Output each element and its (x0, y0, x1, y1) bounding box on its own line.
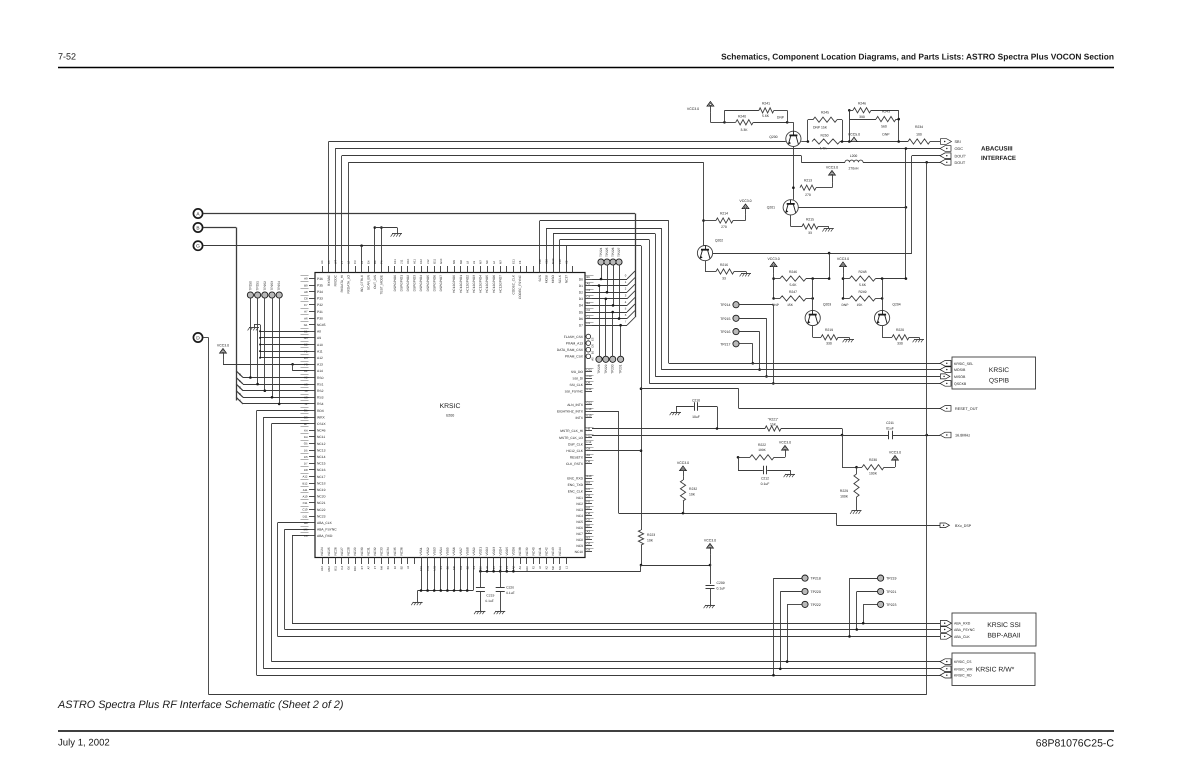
svg-text:QSPIB: QSPIB (989, 378, 1010, 385)
svg-text:B11: B11 (333, 566, 337, 571)
svg-text:DNP 15K: DNP 15K (813, 126, 828, 130)
svg-text:VCC3.0: VCC3.0 (837, 257, 849, 261)
svg-text:RXDDC: RXDDC (333, 274, 337, 286)
svg-text:D5: D5 (591, 344, 595, 348)
svg-text:100K: 100K (840, 495, 849, 499)
svg-text:G4: G4 (587, 447, 591, 451)
svg-text:L10: L10 (558, 259, 562, 264)
svg-text:NC46: NC46 (317, 429, 326, 433)
svg-text:ENC_CLK: ENC_CLK (568, 490, 584, 494)
svg-text:ABA_CLK: ABA_CLK (317, 521, 333, 525)
svg-text:D1: D1 (587, 321, 591, 325)
svg-text:R249: R249 (858, 290, 866, 294)
svg-text:10uF: 10uF (692, 415, 700, 419)
svg-text:5.6K: 5.6K (762, 114, 770, 118)
svg-text:R232: R232 (689, 487, 697, 491)
svg-text:K4: K4 (304, 429, 308, 433)
svg-text:NC6: NC6 (576, 526, 583, 530)
svg-text:M7: M7 (498, 260, 502, 264)
svg-text:R214: R214 (720, 211, 728, 215)
svg-text:VSS2: VSS2 (426, 547, 430, 555)
svg-text:SSI_DI: SSI_DI (573, 376, 584, 380)
svg-text:C3: C3 (587, 288, 591, 292)
svg-text:SSI_DO: SSI_DO (571, 370, 584, 374)
svg-text:100K: 100K (758, 448, 766, 452)
svg-text:B10: B10 (353, 566, 357, 571)
svg-text:TP219: TP219 (886, 577, 896, 581)
svg-text:HC12GPIO4: HC12GPIO4 (479, 275, 483, 293)
svg-text:NC17: NC17 (317, 475, 326, 479)
svg-text:DOUT': DOUT' (955, 154, 967, 158)
svg-text:ENC_TXD: ENC_TXD (568, 483, 584, 487)
svg-text:RS4: RS4 (317, 402, 324, 406)
svg-text:A8: A8 (317, 330, 321, 334)
svg-text:P34: P34 (317, 290, 323, 294)
svg-text:FLASH_CSX: FLASH_CSX (564, 335, 584, 339)
svg-text:A12: A12 (303, 475, 308, 479)
svg-text:J4: J4 (406, 566, 410, 569)
svg-text:H10: H10 (406, 258, 410, 264)
svg-text:OUT_DIS: OUT_DIS (373, 275, 377, 289)
svg-text:BXo_DSP: BXo_DSP (955, 524, 972, 528)
svg-text:E31: E31 (419, 566, 423, 571)
svg-text:P4: P4 (380, 260, 384, 264)
svg-text:3.3K: 3.3K (741, 128, 749, 132)
svg-text:NC4: NC4 (576, 514, 583, 518)
svg-text:TP254: TP254 (277, 281, 281, 291)
svg-text:L2: L2 (347, 260, 351, 264)
svg-text:5.6K: 5.6K (859, 283, 867, 287)
svg-text:B4: B4 (373, 260, 377, 264)
svg-text:July 1, 2002: July 1, 2002 (58, 738, 110, 749)
svg-text:C7: C7 (304, 303, 308, 307)
svg-text:R250: R250 (820, 133, 828, 137)
svg-text:HC12GPIO1: HC12GPIO1 (459, 275, 463, 293)
svg-text:M10: M10 (551, 258, 555, 264)
svg-text:10K: 10K (647, 539, 654, 543)
svg-text:D9: D9 (587, 381, 591, 385)
svg-text:K12: K12 (419, 259, 423, 264)
svg-text:F7: F7 (373, 566, 377, 570)
svg-text:NC41: NC41 (538, 547, 542, 555)
svg-text:A2: A2 (512, 566, 516, 570)
svg-text:NC23: NC23 (317, 514, 326, 518)
svg-text:M4: M4 (380, 566, 384, 570)
svg-text:TP231: TP231 (619, 364, 623, 374)
svg-text:NC27: NC27 (340, 547, 344, 555)
svg-text:7-52: 7-52 (58, 52, 76, 62)
svg-text:NC38: NC38 (518, 547, 522, 555)
svg-text:B10: B10 (587, 474, 592, 478)
svg-text:R222: R222 (758, 443, 766, 447)
svg-text:0.1uF: 0.1uF (506, 591, 514, 595)
svg-text:CLK_RSTX: CLK_RSTX (566, 462, 584, 466)
svg-text:DSPGPIO6: DSPGPIO6 (432, 275, 436, 292)
svg-text:D0: D0 (579, 277, 583, 281)
svg-text:K2: K2 (564, 260, 568, 264)
svg-text:J11: J11 (399, 259, 403, 264)
svg-text:ABA_FSYNC: ABA_FSYNC (317, 528, 337, 532)
svg-text:VSS7: VSS7 (459, 547, 463, 555)
svg-text:C1: C1 (587, 314, 591, 318)
svg-text:330: 330 (826, 342, 832, 346)
svg-text:DNP: DNP (777, 115, 785, 119)
svg-text:L1: L1 (564, 566, 568, 570)
svg-text:NC9: NC9 (576, 544, 583, 548)
svg-text:L11: L11 (432, 566, 436, 571)
svg-text:B7: B7 (492, 566, 496, 570)
svg-text:C211: C211 (886, 421, 894, 425)
svg-text:DSPGPIO1: DSPGPIO1 (399, 275, 403, 292)
svg-text:R243: R243 (882, 110, 890, 114)
svg-text:NC29: NC29 (353, 547, 357, 555)
svg-text:M6: M6 (452, 566, 456, 570)
svg-text:A9: A9 (304, 277, 308, 281)
svg-text:VCC3.0: VCC3.0 (677, 461, 689, 465)
svg-text:D11: D11 (303, 514, 308, 518)
svg-text:C4: C4 (587, 295, 591, 299)
svg-text:PRAM_CSX: PRAM_CSX (565, 355, 584, 359)
svg-text:ABA_RXD: ABA_RXD (954, 622, 971, 626)
svg-text:VCC3.0: VCC3.0 (889, 450, 901, 454)
svg-text:NC7: NC7 (576, 532, 583, 536)
svg-text:NC43: NC43 (551, 547, 555, 555)
svg-text:DSPGPIO2: DSPGPIO2 (406, 275, 410, 292)
svg-text:D5: D5 (579, 310, 583, 314)
svg-text:B: B (196, 225, 199, 231)
svg-text:VSS1: VSS1 (419, 547, 423, 555)
svg-text:C11: C11 (303, 501, 308, 505)
svg-text:F3: F3 (505, 566, 509, 570)
svg-text:Schematics, Component Location: Schematics, Component Location Diagrams,… (721, 52, 1114, 62)
svg-text:EIGHTKHZ_INTX: EIGHTKHZ_INTX (557, 409, 584, 413)
svg-text:Q204: Q204 (892, 303, 900, 307)
svg-text:P35: P35 (317, 283, 323, 287)
svg-text:F10: F10 (587, 407, 592, 411)
svg-text:BD_CTRLX: BD_CTRLX (360, 274, 364, 292)
svg-text:NC10: NC10 (575, 550, 584, 554)
svg-text:Q202: Q202 (715, 239, 723, 243)
svg-text:TP227: TP227 (617, 247, 621, 257)
svg-text:B12: B12 (303, 481, 308, 485)
svg-text:5.6K: 5.6K (790, 283, 798, 287)
svg-text:330: 330 (897, 342, 903, 346)
svg-text:G6: G6 (347, 566, 351, 570)
svg-text:100: 100 (916, 133, 922, 137)
svg-text:D7: D7 (304, 462, 308, 466)
svg-text:TP221: TP221 (886, 590, 896, 594)
svg-text:TP226: TP226 (611, 247, 615, 257)
svg-text:D7: D7 (579, 324, 583, 328)
svg-text:ABA_RXD: ABA_RXD (317, 534, 333, 538)
svg-text:TP228: TP228 (597, 364, 601, 374)
svg-text:NC2: NC2 (576, 502, 583, 506)
svg-text:HC12GPIO7: HC12GPIO7 (498, 275, 502, 293)
svg-text:MOSI: MOSI (545, 275, 549, 283)
svg-text:RXSBC: RXSBC (327, 274, 331, 286)
svg-text:TP251: TP251 (256, 281, 260, 291)
svg-text:NC32: NC32 (373, 547, 377, 555)
svg-text:A4: A4 (587, 281, 591, 285)
svg-text:R223: R223 (647, 533, 655, 537)
svg-text:VCC3.0: VCC3.0 (217, 343, 229, 347)
svg-text:VSS8: VSS8 (465, 547, 469, 555)
svg-text:H12: H12 (587, 433, 593, 437)
svg-text:TP217: TP217 (720, 342, 730, 346)
svg-text:L200: L200 (850, 154, 858, 158)
svg-text:DATA_RAM_CSX: DATA_RAM_CSX (557, 348, 584, 352)
svg-text:KRSIC: KRSIC (989, 367, 1009, 374)
svg-text:K1: K1 (472, 566, 476, 570)
svg-text:J10: J10 (538, 259, 542, 264)
svg-text:HC12_CLK: HC12_CLK (566, 449, 583, 453)
svg-text:K10: K10 (545, 259, 549, 264)
svg-text:F3: F3 (304, 363, 308, 367)
svg-text:R215: R215 (806, 218, 814, 222)
svg-text:RXDATA_LO: RXDATA_LO (347, 274, 351, 293)
svg-text:0.1uF: 0.1uF (717, 587, 726, 591)
svg-text:INTERFACE: INTERFACE (981, 155, 1016, 162)
svg-text:NC3: NC3 (576, 508, 583, 512)
svg-text:TP229: TP229 (604, 364, 608, 374)
svg-text:CODEC_CLK: CODEC_CLK (512, 274, 516, 294)
svg-text:RS1: RS1 (317, 382, 324, 386)
svg-text:NC18: NC18 (317, 481, 326, 485)
svg-text:J12: J12 (426, 259, 430, 264)
svg-text:B2: B2 (465, 566, 469, 570)
svg-text:CS1X: CS1X (317, 422, 326, 426)
svg-text:NC15: NC15 (317, 462, 326, 466)
svg-text:SSI_FSYNC: SSI_FSYNC (565, 390, 584, 394)
svg-text:L8: L8 (465, 260, 469, 264)
svg-text:NC14: NC14 (317, 455, 326, 459)
svg-text:NC26: NC26 (333, 547, 337, 555)
svg-text:NC20: NC20 (317, 495, 326, 499)
svg-text:RS2: RS2 (317, 389, 324, 393)
svg-text:R247: R247 (789, 290, 797, 294)
svg-text:B9: B9 (304, 283, 308, 287)
svg-text:RS3: RS3 (317, 396, 324, 400)
svg-text:TP253: TP253 (270, 281, 274, 291)
svg-text:M1: M1 (558, 566, 562, 570)
svg-text:ENC_RXD: ENC_RXD (567, 476, 583, 480)
svg-text:KRSIC: KRSIC (440, 403, 461, 410)
svg-text:VDD2: VDD2 (485, 547, 489, 556)
svg-text:DSPGPIO4: DSPGPIO4 (419, 275, 423, 292)
svg-text:C209: C209 (717, 581, 725, 585)
svg-text:D2: D2 (579, 291, 583, 295)
svg-text:10K: 10K (689, 493, 696, 497)
svg-text:D4: D4 (459, 566, 463, 570)
svg-text:DSPGPIO7: DSPGPIO7 (439, 275, 443, 292)
svg-text:TP225: TP225 (605, 247, 609, 257)
svg-text:Q200: Q200 (769, 135, 777, 139)
svg-text:NC35: NC35 (393, 547, 397, 555)
svg-text:MSTR_CLK_LO: MSTR_CLK_LO (559, 436, 583, 440)
svg-text:SCAN_EN: SCAN_EN (366, 274, 370, 290)
svg-text:ALN_INTX: ALN_INTX (567, 403, 584, 407)
svg-text:R248: R248 (858, 270, 866, 274)
svg-text:NC11: NC11 (317, 435, 325, 439)
svg-text:J2: J2 (538, 566, 542, 569)
svg-text:NC21: NC21 (317, 501, 326, 505)
svg-text:B1: B1 (386, 566, 390, 570)
svg-text:NC31: NC31 (366, 547, 370, 555)
svg-text:M2: M2 (551, 566, 555, 570)
svg-text:G5: G5 (304, 442, 308, 446)
svg-text:A10: A10 (303, 495, 308, 499)
svg-text:U200: U200 (446, 414, 455, 418)
svg-text:G12: G12 (587, 400, 593, 404)
svg-text:PRAM_A13: PRAM_A13 (566, 341, 583, 345)
svg-text:HC12GPIO3: HC12GPIO3 (472, 275, 476, 293)
svg-text:J1: J1 (305, 402, 308, 406)
svg-text:U6: U6 (320, 260, 324, 264)
svg-text:0.1uF: 0.1uF (485, 599, 493, 603)
svg-text:P33: P33 (317, 297, 323, 301)
svg-text:A9: A9 (587, 453, 591, 457)
svg-text:R246: R246 (789, 270, 797, 274)
svg-text:R240: R240 (738, 114, 746, 118)
svg-text:B7: B7 (304, 422, 308, 426)
svg-text:E2: E2 (304, 343, 308, 347)
svg-text:VSS9: VSS9 (472, 547, 476, 555)
svg-text:E3: E3 (304, 356, 308, 360)
svg-text:J3: J3 (305, 389, 308, 393)
svg-text:A13: A13 (317, 363, 323, 367)
svg-text:NC30: NC30 (360, 547, 364, 555)
svg-text:A9: A9 (317, 336, 321, 340)
svg-text:HC12GPIO6: HC12GPIO6 (492, 275, 496, 293)
svg-text:SSI_CLK: SSI_CLK (569, 383, 583, 387)
svg-text:TEST_MODE: TEST_MODE (380, 275, 384, 294)
svg-text:"R221": "R221" (768, 418, 779, 422)
svg-text:TP224: TP224 (599, 247, 603, 257)
svg-text:ASTRO Spectra Plus RF Interfac: ASTRO Spectra Plus RF Interface Schemati… (57, 699, 343, 711)
svg-text:HC12GPIO2: HC12GPIO2 (465, 275, 469, 293)
svg-text:VDD5: VDD5 (505, 547, 509, 556)
svg-text:A8: A8 (304, 290, 308, 294)
svg-text:NC8: NC8 (576, 538, 583, 542)
svg-text:C212: C212 (761, 477, 769, 481)
svg-text:ODC: ODC (955, 147, 964, 151)
svg-text:A6: A6 (304, 316, 308, 320)
svg-text:TP220: TP220 (811, 590, 821, 594)
svg-text:RDX: RDX (317, 409, 325, 413)
svg-text:KRSIC R/W*: KRSIC R/W* (976, 667, 1015, 674)
svg-text:VCC3.0: VCC3.0 (739, 199, 751, 203)
svg-text:DSPGPIO3: DSPGPIO3 (413, 275, 417, 292)
svg-text:INTX: INTX (575, 416, 583, 420)
svg-text:A10: A10 (525, 566, 529, 571)
svg-text:L5: L5 (304, 534, 308, 538)
svg-text:BBP-ABAII: BBP-ABAII (987, 633, 1020, 640)
svg-text:H4: H4 (498, 566, 502, 570)
svg-text:NC33: NC33 (380, 547, 384, 555)
svg-text:NC39: NC39 (525, 547, 529, 555)
svg-text:QSCKB: QSCKB (954, 382, 967, 386)
svg-text:VSS5: VSS5 (446, 547, 450, 555)
svg-text:DNP: DNP (882, 132, 890, 136)
svg-text:VDD1: VDD1 (479, 547, 483, 556)
svg-text:N8: N8 (485, 260, 489, 264)
svg-text:ABA_FSYNC: ABA_FSYNC (954, 628, 975, 632)
svg-text:NC19: NC19 (317, 488, 326, 492)
svg-text:270: 270 (805, 193, 811, 197)
svg-text:P31: P31 (317, 310, 323, 314)
svg-text:W7: W7 (333, 259, 337, 264)
svg-text:E10: E10 (587, 414, 592, 418)
svg-text:B2: B2 (399, 566, 403, 570)
svg-text:K2: K2 (545, 566, 549, 570)
svg-text:E4: E4 (304, 435, 308, 439)
svg-text:D5: D5 (304, 448, 308, 452)
svg-text:C4: C4 (340, 566, 344, 570)
svg-text:TP250: TP250 (248, 281, 252, 291)
svg-text:CODEC_FSYNC: CODEC_FSYNC (518, 274, 522, 299)
svg-text:R230: R230 (869, 458, 877, 462)
svg-text:01uF: 01uF (886, 427, 894, 431)
svg-text:A7: A7 (304, 310, 308, 314)
svg-text:D6: D6 (304, 455, 308, 459)
svg-text:HC12GPIO5: HC12GPIO5 (485, 275, 489, 293)
svg-text:NC42: NC42 (545, 547, 549, 555)
svg-text:NC28: NC28 (347, 547, 351, 555)
svg-text:VCC3.0: VCC3.0 (704, 538, 716, 542)
svg-text:KRSIC_RD: KRSIC_RD (954, 674, 972, 678)
svg-text:R216: R216 (720, 263, 728, 267)
svg-text:C10: C10 (302, 508, 308, 512)
svg-text:NC44: NC44 (558, 547, 562, 555)
svg-text:B8: B8 (304, 521, 308, 525)
svg-text:K11: K11 (393, 259, 397, 264)
svg-text:TP230: TP230 (611, 364, 615, 374)
svg-text:VCC3.0: VCC3.0 (767, 257, 779, 261)
svg-text:G11: G11 (432, 258, 436, 264)
svg-text:D10: D10 (479, 566, 483, 572)
svg-text:NC24: NC24 (320, 547, 324, 555)
svg-text:VDD4: VDD4 (498, 547, 502, 556)
svg-text:P32: P32 (317, 303, 323, 307)
svg-text:SCS: SCS (538, 275, 542, 282)
svg-text:M9: M9 (452, 260, 456, 264)
svg-text:WRX: WRX (317, 415, 325, 419)
svg-text:A10: A10 (317, 343, 323, 347)
svg-text:TP223: TP223 (886, 603, 896, 607)
svg-text:C210: C210 (692, 399, 700, 403)
svg-text:E6: E6 (591, 350, 595, 354)
svg-text:VCC3.0: VCC3.0 (826, 165, 838, 169)
svg-text:K1: K1 (439, 566, 443, 570)
svg-text:F6: F6 (393, 566, 397, 570)
svg-text:15K: 15K (857, 303, 864, 307)
svg-text:G5: G5 (304, 409, 308, 413)
svg-text:KRSIC SSI: KRSIC SSI (987, 622, 1021, 629)
svg-text:RS0: RS0 (317, 376, 324, 380)
svg-text:D1: D1 (579, 284, 583, 288)
svg-text:TP222: TP222 (811, 603, 821, 607)
svg-text:P36: P36 (317, 277, 323, 281)
svg-text:H1: H1 (304, 369, 308, 373)
svg-text:33: 33 (808, 231, 812, 235)
svg-text:KRSIC_CS: KRSIC_CS (954, 660, 972, 664)
svg-text:M8: M8 (459, 260, 463, 264)
svg-text:F1: F1 (304, 349, 308, 353)
svg-text:G3: G3 (304, 415, 308, 419)
svg-text:DNP: DNP (842, 303, 850, 307)
svg-text:R245: R245 (821, 110, 829, 114)
svg-text:33: 33 (722, 276, 726, 280)
